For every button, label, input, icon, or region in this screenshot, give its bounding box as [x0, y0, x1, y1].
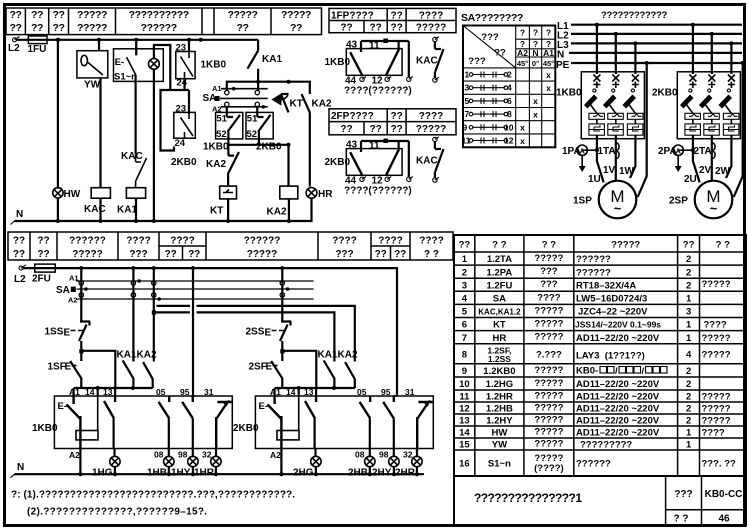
- svg-text:2: 2: [686, 379, 691, 390]
- phase wire C: [634, 43, 636, 74]
- svg-text:??: ??: [9, 9, 21, 21]
- svg-text:1PA: 1PA: [562, 146, 581, 157]
- svg-text:1: 1: [686, 440, 692, 451]
- svg-text:KA2: KA2: [312, 99, 332, 110]
- svg-text:KA2: KA2: [206, 159, 226, 170]
- wire 1SS bypass jog: [81, 351, 115, 388]
- svg-text:1HR: 1HR: [194, 468, 215, 479]
- net H1 cross link: [157, 306, 355, 362]
- svg-text:KA2: KA2: [338, 350, 358, 361]
- SA header diagonal: [463, 26, 516, 68]
- SA table frame: [463, 26, 555, 148]
- svg-text:????????????: ????????????: [601, 10, 668, 21]
- contactor flags: [584, 95, 598, 109]
- wire 2SS bypass jog: [282, 351, 316, 388]
- svg-text:9: 9: [462, 366, 467, 377]
- SA row lines: [463, 81, 555, 134]
- svg-text:?.???: ?.???: [536, 350, 562, 361]
- svg-text:1V: 1V: [603, 165, 616, 176]
- lamp wire from S1~n lamp: [149, 59, 160, 70]
- ammeter tap: [582, 149, 597, 151]
- svg-text:??: ??: [290, 22, 302, 34]
- svg-text:14: 14: [459, 428, 470, 439]
- svg-text:KA1: KA1: [117, 205, 137, 216]
- svg-text:1KB0: 1KB0: [556, 88, 582, 99]
- svg-text:1.2HB: 1.2HB: [486, 404, 513, 415]
- svg-text:9: 9: [463, 122, 468, 132]
- svg-text:2KB0: 2KB0: [652, 88, 678, 99]
- svg-text:??????: ??????: [244, 236, 281, 247]
- svg-text:? ?: ? ?: [674, 514, 689, 525]
- contact 31 NC g2: [417, 402, 433, 448]
- svg-text:E-: E-: [259, 401, 269, 412]
- svg-text:0°: 0°: [532, 59, 539, 68]
- svg-text:1.2HR: 1.2HR: [486, 392, 513, 403]
- svg-text:1HB: 1HB: [147, 468, 167, 479]
- svg-text:????(??????): ????(??????): [344, 186, 412, 197]
- svg-text:KT: KT: [290, 99, 303, 110]
- svg-text:????: ????: [419, 111, 443, 122]
- contact 1KB0 NC 23-24: [188, 40, 190, 52]
- svg-text:????: ????: [704, 320, 727, 331]
- svg-text:KA2: KA2: [137, 350, 157, 361]
- svg-text:51: 51: [216, 114, 227, 125]
- svg-text:N: N: [16, 209, 23, 220]
- svg-text:?????: ?????: [702, 350, 731, 361]
- svg-text:?????: ?????: [534, 439, 563, 450]
- wire pilot link g1: [74, 388, 153, 396]
- breaker unit box: [581, 72, 644, 139]
- svg-text:05: 05: [357, 387, 367, 397]
- svg-text:2SF: 2SF: [249, 362, 267, 373]
- wire pilot link g2: [275, 388, 355, 396]
- svg-text:HW: HW: [64, 189, 81, 200]
- svg-text:11: 11: [459, 392, 470, 403]
- svg-text:??: ??: [52, 9, 64, 21]
- svg-text:32: 32: [403, 450, 413, 460]
- KB0 box 1: [54, 396, 232, 449]
- thermal elements row1: [589, 113, 605, 119]
- svg-text:?????: ?????: [416, 23, 447, 34]
- svg-text:31: 31: [204, 387, 214, 397]
- svg-text:??: ??: [369, 124, 381, 135]
- svg-text:x: x: [546, 70, 551, 80]
- svg-text:1.2TA: 1.2TA: [487, 254, 512, 265]
- svg-text:52: 52: [247, 129, 258, 140]
- svg-text:2W: 2W: [715, 166, 731, 177]
- svg-text:KA2: KA2: [267, 207, 287, 218]
- 2KB0 aux switch box 51-52: [256, 107, 258, 117]
- svg-text:??: ??: [394, 249, 406, 260]
- header strip dividers: [25, 8, 271, 35]
- node L2 terminal: [13, 38, 17, 42]
- svg-text:2HY: 2HY: [372, 468, 392, 479]
- row terminals group2: [280, 281, 284, 285]
- current transformer loops: [616, 143, 619, 159]
- svg-text:1TA: 1TA: [598, 146, 616, 157]
- KT delayed contact: [281, 94, 289, 112]
- svg-text:16: 16: [459, 459, 470, 470]
- svg-text:11: 11: [369, 41, 380, 52]
- svg-text:? ?: ? ?: [542, 240, 556, 251]
- wire HW lamp drop: [57, 40, 59, 189]
- svg-text:4: 4: [462, 294, 468, 305]
- fuse 1FU: [28, 36, 47, 44]
- phase wire A: [596, 25, 598, 74]
- svg-text:2SP: 2SP: [669, 196, 688, 207]
- svg-text:2: 2: [686, 267, 691, 278]
- svg-text:1.2HY: 1.2HY: [486, 416, 513, 427]
- svg-text:11: 11: [369, 141, 380, 152]
- svg-text:2HG: 2HG: [293, 468, 314, 479]
- svg-text:?????: ?????: [534, 365, 563, 376]
- svg-text:E-: E-: [58, 401, 68, 412]
- svg-text:1: 1: [686, 333, 692, 344]
- svg-text:???: ???: [540, 266, 558, 277]
- svg-text:1SP: 1SP: [573, 196, 592, 207]
- svg-text:E: E: [265, 328, 272, 339]
- svg-text:HW: HW: [491, 428, 507, 439]
- svg-text:???: ???: [468, 56, 486, 67]
- svg-text:JZC4–22 ~220V: JZC4–22 ~220V: [578, 307, 648, 318]
- svg-text:E: E: [64, 328, 71, 339]
- svg-text:1: 1: [686, 320, 692, 331]
- svg-text:6: 6: [462, 320, 467, 331]
- svg-text:??: ??: [390, 111, 402, 122]
- svg-text:?: ?: [533, 28, 538, 38]
- svg-text:x: x: [520, 136, 525, 146]
- svg-text:98: 98: [178, 450, 188, 460]
- svg-text:?????: ?????: [534, 332, 563, 343]
- svg-text:2SS: 2SS: [246, 327, 265, 338]
- fuse 2FU: [35, 264, 55, 272]
- svg-text:32: 32: [202, 450, 212, 460]
- net A2 row: [76, 298, 314, 300]
- svg-text:???: ???: [335, 249, 353, 260]
- svg-text:1: 1: [686, 428, 692, 439]
- wire lower bus: [23, 268, 397, 396]
- float switch S1~n box: [135, 40, 137, 56]
- svg-text:HR: HR: [493, 333, 507, 344]
- svg-text:~: ~: [710, 201, 718, 216]
- svg-text:13: 13: [103, 387, 113, 397]
- svg-text:08: 08: [355, 450, 365, 460]
- svg-text:?????: ?????: [702, 333, 731, 344]
- svg-text:45°: 45°: [543, 59, 554, 68]
- svg-text:RT18–32X/4A: RT18–32X/4A: [576, 280, 636, 291]
- svg-text:???: ???: [481, 32, 499, 43]
- svg-text:?????: ?????: [247, 249, 278, 260]
- svg-text:????(??????): ????(??????): [344, 86, 412, 97]
- svg-text:????: ????: [126, 236, 150, 247]
- svg-text:A1: A1: [69, 387, 80, 397]
- svg-text:1FP????: 1FP????: [331, 10, 374, 21]
- svg-text:95: 95: [381, 387, 391, 397]
- 2FP header box: [329, 109, 456, 135]
- svg-text:????: ????: [419, 10, 443, 21]
- svg-text:??: ??: [9, 22, 21, 34]
- svg-text:?????: ?????: [534, 427, 563, 438]
- svg-text:?????: ?????: [702, 279, 731, 290]
- svg-text:1SS: 1SS: [45, 327, 64, 338]
- svg-text:?????: ?????: [534, 253, 563, 264]
- svg-text:??????: ??????: [576, 459, 611, 470]
- svg-text:10: 10: [504, 122, 514, 132]
- svg-text:KAC: KAC: [121, 151, 143, 162]
- svg-text:??: ??: [13, 249, 25, 260]
- svg-text:KA1: KA1: [318, 350, 338, 361]
- svg-text:??: ??: [369, 23, 381, 34]
- button 2SS (stop, NC): [281, 268, 283, 321]
- svg-text:1HY: 1HY: [171, 468, 191, 479]
- svg-text:1SF: 1SF: [48, 362, 66, 373]
- svg-text:98: 98: [379, 450, 389, 460]
- svg-text:2: 2: [686, 366, 691, 377]
- contact 05 g1: [159, 396, 170, 418]
- lower strip frame: [8, 232, 453, 260]
- row terminals group1: [79, 281, 83, 285]
- svg-text:13: 13: [304, 387, 314, 397]
- wire 95 long drop g2 (from bus corner): [394, 395, 397, 397]
- svg-text:46: 46: [718, 514, 730, 525]
- contact 95 g2: [383, 396, 394, 418]
- svg-text:??: ??: [37, 249, 49, 260]
- node L2 terminal lower: [19, 266, 23, 270]
- svg-text:A: A: [579, 146, 585, 155]
- coil KA1: [126, 188, 145, 199]
- contact 05 g2: [360, 396, 371, 418]
- svg-text:YW: YW: [492, 440, 507, 451]
- svg-text:A2: A2: [517, 48, 528, 58]
- svg-text:15: 15: [459, 440, 470, 451]
- svg-text:1.2FU: 1.2FU: [486, 280, 512, 291]
- svg-text:A1: A1: [212, 84, 222, 93]
- svg-text:??: ??: [390, 10, 402, 21]
- svg-text:KA1: KA1: [262, 54, 282, 65]
- svg-text:????: ????: [702, 428, 725, 439]
- svg-text:?????: ?????: [77, 22, 107, 34]
- svg-text:????: ????: [170, 236, 194, 247]
- parts rows 9-15: [459, 365, 731, 451]
- svg-text:??: ??: [236, 22, 248, 34]
- 1KB0 aux switch box 51-52: [226, 107, 228, 117]
- svg-text:2HR: 2HR: [395, 468, 416, 479]
- svg-text:KT: KT: [493, 320, 506, 331]
- svg-text:???: ???: [674, 489, 692, 500]
- svg-text:AD11–22/20 ~220V: AD11–22/20 ~220V: [576, 404, 660, 415]
- title block frame: [454, 476, 746, 526]
- parts row 8: [462, 346, 731, 365]
- svg-text:A2: A2: [68, 296, 78, 305]
- svg-text:2PA: 2PA: [658, 146, 677, 157]
- svg-text:2KB0: 2KB0: [171, 157, 197, 168]
- svg-text:3: 3: [686, 307, 691, 318]
- svg-text:KAC: KAC: [416, 56, 438, 67]
- svg-text:?????: ?????: [281, 9, 311, 21]
- svg-text:???????????????1: ???????????????1: [474, 491, 582, 505]
- SA contact rows: [462, 70, 514, 146]
- svg-text:? ?: ? ?: [492, 240, 506, 251]
- svg-text:?????: ?????: [227, 9, 257, 21]
- svg-text:~: ~: [614, 201, 622, 216]
- svg-text:?????: ?????: [534, 391, 563, 402]
- contactor group 2KB0 graphics: [673, 23, 745, 219]
- svg-text:14: 14: [85, 387, 95, 397]
- svg-text:05: 05: [156, 387, 166, 397]
- svg-text:LW5–16D0724/3: LW5–16D0724/3: [576, 294, 647, 305]
- svg-text:A1: A1: [543, 48, 554, 58]
- contact KAC upper (NC): [433, 37, 437, 41]
- pressure switch YW box: [98, 40, 100, 51]
- svg-text:?????: ?????: [534, 403, 563, 414]
- breaker poles: [593, 75, 639, 89]
- coil KAC: [91, 188, 110, 199]
- svg-text:??: ??: [459, 240, 471, 251]
- wires into motor: [597, 135, 636, 182]
- svg-text:AD11–22/20 ~220V: AD11–22/20 ~220V: [576, 379, 660, 390]
- svg-text:12: 12: [504, 136, 514, 146]
- svg-text:2: 2: [686, 404, 691, 415]
- svg-text:AD11–22/20 ~220V: AD11–22/20 ~220V: [576, 416, 660, 427]
- net H2 cross link: [154, 312, 335, 361]
- contact 31 NC g1: [216, 402, 232, 448]
- svg-text:??: ??: [390, 124, 402, 135]
- svg-text:?????: ?????: [534, 415, 563, 426]
- svg-text:???: ???: [129, 249, 147, 260]
- junction dots lower bus: [79, 266, 83, 270]
- svg-text:1.2HG: 1.2HG: [486, 379, 513, 390]
- lower strip dividers: [30, 232, 410, 260]
- svg-text:HR: HR: [318, 189, 333, 200]
- lamp HR: [306, 188, 317, 199]
- svg-text:1U: 1U: [588, 174, 601, 185]
- svg-text:14: 14: [286, 387, 296, 397]
- motor circle: [599, 181, 637, 219]
- wire loop under 2KB0 contact: [161, 90, 175, 151]
- svg-text:???. ??: ???. ??: [702, 459, 736, 470]
- svg-text:1: 1: [462, 254, 468, 265]
- svg-text:???: ???: [540, 279, 558, 290]
- svg-text:KB0-: KB0-: [576, 366, 598, 377]
- svg-text:SA????????: SA????????: [461, 12, 523, 24]
- svg-text:??????: ??????: [576, 254, 611, 265]
- svg-text:95: 95: [180, 387, 190, 397]
- svg-text:KT: KT: [210, 206, 223, 217]
- svg-text:L2: L2: [8, 43, 20, 54]
- coil KT (time relay): [220, 186, 237, 199]
- svg-text:PE: PE: [556, 60, 570, 71]
- svg-text:?????: ?????: [534, 378, 563, 389]
- svg-text:31: 31: [405, 387, 415, 397]
- KB0 box 2: [255, 396, 433, 449]
- SA x marks: [520, 70, 551, 146]
- svg-text:?????: ?????: [702, 392, 731, 403]
- lamp 2HG: [314, 448, 316, 456]
- svg-text:24: 24: [177, 78, 188, 89]
- junction dots on bus: [56, 38, 60, 42]
- svg-text:??: ??: [683, 240, 695, 251]
- svg-text:? ?: ? ?: [716, 240, 730, 251]
- svg-text:08: 08: [154, 450, 164, 460]
- svg-text:KA1: KA1: [117, 350, 137, 361]
- svg-text:2KB0: 2KB0: [233, 423, 259, 434]
- svg-text:? ?: ? ?: [424, 249, 439, 260]
- svg-text:??????????: ??????????: [129, 9, 189, 21]
- SA column grid: [463, 26, 555, 148]
- svg-text:/: /: [615, 366, 618, 377]
- svg-text:x: x: [520, 123, 525, 133]
- button 1SS (stop, NC): [80, 268, 82, 321]
- svg-text:1KB0: 1KB0: [201, 60, 227, 71]
- svg-text:1: 1: [686, 294, 692, 305]
- svg-text:JSS14/~220V 0.1~99s: JSS14/~220V 0.1~99s: [575, 320, 661, 330]
- svg-text:2: 2: [686, 416, 691, 427]
- svg-text:AD11–22/20 ~220V: AD11–22/20 ~220V: [576, 392, 660, 403]
- svg-text:?????: ?????: [72, 249, 103, 260]
- svg-text:A1: A1: [270, 387, 281, 397]
- parts header row: [459, 240, 731, 251]
- wire link row: [227, 82, 310, 94]
- svg-text:?????: ?????: [416, 124, 447, 135]
- svg-text:SA: SA: [493, 294, 506, 305]
- svg-text:SA: SA: [203, 93, 217, 104]
- svg-text:?????: ?????: [702, 404, 731, 415]
- wire YW to KAC coil: [99, 78, 101, 188]
- svg-text:??: ??: [52, 22, 64, 34]
- selector terminals redraw lower (on top): [79, 281, 83, 285]
- svg-text:?: ?: [520, 28, 525, 38]
- svg-text:1.2SS: 1.2SS: [488, 354, 511, 364]
- svg-text:??: ??: [340, 23, 352, 34]
- svg-text:(????): (????): [534, 463, 564, 474]
- 1FP header box: [329, 8, 456, 32]
- svg-text:?????: ?????: [611, 240, 640, 251]
- svg-text:?????????: ?????????: [580, 440, 632, 451]
- svg-text:1HG: 1HG: [92, 468, 113, 479]
- svg-text:L2: L2: [14, 274, 26, 285]
- svg-text:????: ????: [419, 236, 443, 247]
- svg-text:8: 8: [462, 350, 467, 361]
- svg-text:x: x: [533, 96, 538, 106]
- svg-text:??: ??: [375, 249, 387, 260]
- coil KA2: [280, 186, 298, 199]
- svg-text:S1~n: S1~n: [488, 459, 511, 470]
- svg-text:?????: ?????: [77, 9, 107, 21]
- svg-text:/: /: [642, 366, 645, 377]
- svg-text:3: 3: [462, 280, 467, 291]
- wire KA1 feed g1: [132, 268, 134, 361]
- svg-text:2V: 2V: [699, 165, 712, 176]
- svg-text:??: ??: [390, 23, 402, 34]
- svg-text:KAC,KA1.2: KAC,KA1.2: [478, 308, 521, 317]
- svg-text:S1~n: S1~n: [114, 72, 137, 83]
- svg-text:????: ????: [378, 236, 402, 247]
- svg-text:?????: ?????: [534, 305, 563, 316]
- svg-text:1KB0: 1KB0: [203, 142, 229, 153]
- contact 13 g2: [305, 396, 316, 418]
- header strip frame: [6, 8, 322, 35]
- svg-text:2KB0: 2KB0: [325, 157, 351, 168]
- contact 95 g1: [182, 396, 193, 418]
- svg-text:7: 7: [462, 333, 467, 344]
- svg-text:2: 2: [686, 280, 691, 291]
- thermal elements row2: [589, 124, 605, 135]
- svg-text:4: 4: [686, 350, 692, 361]
- svg-text:1W: 1W: [619, 166, 635, 177]
- selector terminals redraw (on top): [225, 90, 229, 94]
- svg-text:10: 10: [459, 379, 470, 390]
- phase wire B: [615, 34, 617, 74]
